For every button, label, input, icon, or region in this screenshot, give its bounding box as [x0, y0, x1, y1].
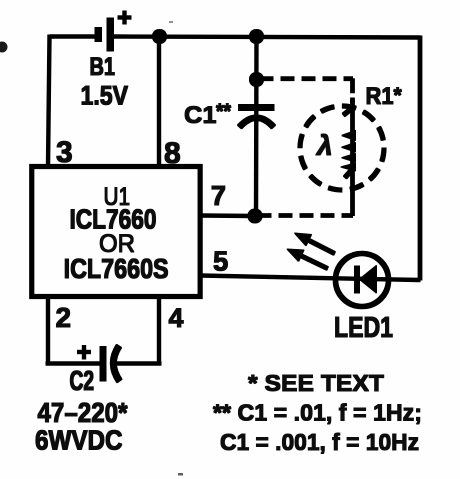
wire C2 bottom right — [113, 362, 161, 365]
wire pin 7 — [200, 214, 255, 218]
svg-text:2: 2 — [56, 302, 72, 333]
wire top rail — [50, 37, 420, 38]
label R1* — [366, 83, 403, 110]
svg-text:5: 5 — [213, 246, 228, 277]
scan speck top — [169, 21, 173, 23]
scan speck left edge — [0, 42, 8, 53]
node junction dashed-box top — [250, 73, 264, 87]
svg-text:*: * — [394, 84, 403, 107]
svg-text:6WVDC: 6WVDC — [35, 425, 123, 456]
node junction pin7 — [248, 209, 262, 223]
scan speck bottom — [178, 473, 183, 476]
node junction top-1 — [153, 30, 167, 44]
svg-text:4: 4 — [169, 303, 184, 333]
svg-text:8: 8 — [164, 137, 181, 170]
wire C2 bottom left — [46, 362, 101, 365]
LED light arrow 1 — [295, 233, 335, 254]
svg-text:1.5V: 1.5V — [81, 81, 129, 111]
capacitor C1 — [239, 105, 275, 128]
svg-text:B1: B1 — [90, 53, 116, 81]
wire dashed box top edge — [260, 77, 353, 81]
LED light arrow 2 — [287, 249, 328, 269]
wire pin 2 rail — [46, 296, 49, 364]
svg-text:C2: C2 — [70, 365, 95, 396]
capacitor C2 — [78, 346, 120, 382]
svg-text:** C1 = .01, f = 1Hz;: ** C1 = .01, f = 1Hz; — [213, 400, 422, 426]
wire left rail (pin 3) — [48, 35, 50, 167]
svg-text:C1 = .001, f = 10Hz: C1 = .001, f = 10Hz — [220, 429, 419, 455]
svg-text:3: 3 — [56, 136, 73, 169]
svg-text:47–220*: 47–220* — [38, 397, 128, 428]
wire dashed box bottom edge — [258, 214, 353, 218]
wire C1 vertical rail — [254, 36, 258, 216]
svg-text:λ: λ — [315, 130, 333, 161]
node junction top-2 — [250, 30, 264, 44]
svg-text:7: 7 — [211, 180, 226, 211]
wire right rail — [418, 36, 422, 280]
svg-text:LED1: LED1 — [334, 312, 393, 344]
battery B1 — [95, 11, 131, 51]
resistor R1 photocell — [341, 98, 356, 216]
wire pin 5 to LED to right rail — [200, 276, 420, 281]
wire pin 4 rail — [157, 296, 160, 364]
U1 box — [32, 167, 200, 297]
svg-text:C1: C1 — [184, 102, 217, 129]
label C1** — [184, 100, 232, 129]
photocell dashed circle — [300, 106, 384, 190]
LED1 — [336, 254, 389, 307]
svg-text:R1: R1 — [366, 83, 394, 110]
wire dashed box right stub — [351, 79, 355, 102]
svg-text:**: ** — [216, 100, 232, 123]
svg-text:ICL7660S: ICL7660S — [64, 253, 169, 284]
svg-text:* SEE TEXT: * SEE TEXT — [248, 370, 385, 396]
wire pin 8 rail — [157, 36, 160, 167]
